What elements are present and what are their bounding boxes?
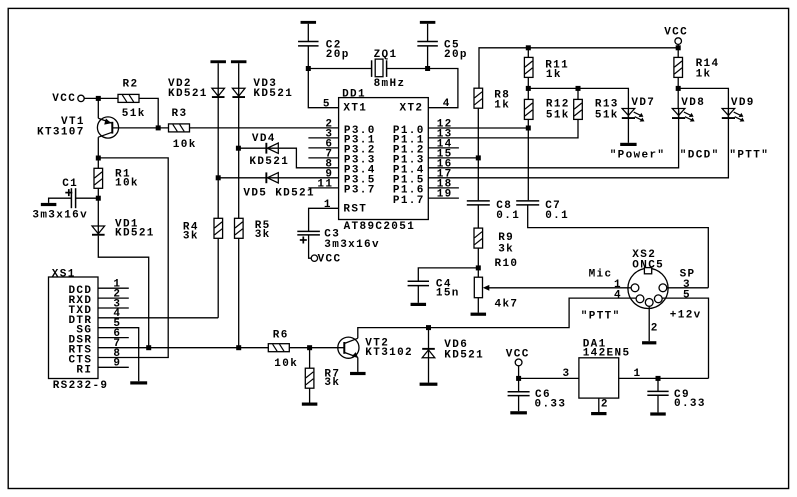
svg-text:10k: 10k [274,358,298,370]
capacitor C8 [467,200,490,202]
wire node to VD1 [97,198,99,236]
wire VD4 to DD1 pin8 [278,148,338,168]
svg-text:AT89C2051: AT89C2051 [344,221,416,233]
wire VCC terminal to R2 [84,97,118,99]
diode VD4 KD521 [265,143,267,154]
wire VD8 to DD1 pin16 [428,111,678,168]
wire R4 to DTR line [217,238,219,317]
pin 1 circle (XS2) [631,284,639,292]
wire DD1 pin stub (right row 2) [428,147,459,149]
svg-text:VD7: VD7 [631,97,655,109]
wire VCC rail [479,48,678,88]
wire XS2 pin2 to ground [648,306,650,341]
node junction PTT/VD6 [426,325,431,330]
LED VD9 [727,109,729,118]
wire R8 bottom to C8 [477,108,479,200]
svg-text:142EN5: 142EN5 [583,348,631,360]
svg-text:RST: RST [343,204,367,216]
voltage regulator DA1 142EN5 [579,358,619,398]
wire node to XT2 pin4 [428,69,458,108]
resistor R1 [94,168,103,188]
wire VT2 collector PTT line [358,298,636,338]
LED VD7 [627,109,629,118]
wire DA1 pin1 to +12v line [619,377,709,379]
svg-text:P1.7: P1.7 [393,195,425,207]
wire node to C9 [657,378,659,391]
wire C2 to XT1 node [307,46,309,68]
capacitor C4 [408,280,429,282]
node junction C2/ZQ1/XT1 [306,66,311,71]
IC DD1 AT89C2051 [339,98,429,220]
wire C3 to VCC terminal [309,235,312,258]
wire XS1 pin 3 stub [98,307,129,309]
svg-text:3m3x16v: 3m3x16v [324,239,380,251]
svg-text:+12v: +12v [670,309,702,321]
wire XS1 pin 1 stub [98,287,129,289]
wire VCC to DA1 pin3 [518,366,520,392]
wire R11 bottom [527,77,529,99]
wire VD2 to R4 [217,98,219,218]
wire node to R1 [97,158,99,168]
wire node to ZQ1 [308,68,371,70]
svg-text:"PTT": "PTT" [581,311,621,323]
wire node to R13 [577,88,579,99]
wire DD1 pin stub (left row 3) [308,157,338,159]
wire DD1 pin12 line [428,127,528,129]
wire DD1 pin15 to R8 node [428,157,478,159]
wire DD1 pin stub (right row 7) [428,197,459,199]
connector XS1 RS232-9 [49,277,99,379]
svg-text:3k: 3k [255,229,271,241]
svg-text:4: 4 [443,98,451,110]
node junction R2/R3/VT1 base [156,125,161,130]
wire R10 bottom to ground [477,298,479,313]
potentiometer R10 [474,277,482,298]
wire VD9 to DD1 pin17 [428,111,728,178]
wire node to C4 [418,268,478,281]
power terminal VCC (C3) [311,255,317,261]
wire VT1 base to R3 [112,127,168,129]
wire VD3 to R5 [238,98,240,218]
svg-text:1k: 1k [494,99,510,111]
node junction RTS/VD1 [146,345,151,350]
wire DD1 pin stub (right row 6) [428,187,459,189]
wire rail to VD3 [238,63,240,98]
wire VT1 emitter up [97,98,99,118]
ground DA1 [591,412,606,415]
wire bar to C2 [307,24,309,42]
wire R5 to RTS line [238,238,240,347]
wire VD6 to ground [428,358,430,383]
svg-text:15n: 15n [436,288,460,300]
wire RST pin1 to C3 [309,208,339,231]
node junction VD2 column/VD5 [216,175,221,180]
wire node to VD6 [428,328,430,358]
pin 5 circle (XS2) [654,295,662,303]
resistor R8 [474,88,483,108]
wire rail to VD9 [678,88,728,108]
diode VD5 KD521 [265,172,267,183]
svg-text:0.33: 0.33 [674,398,706,410]
svg-text:3k: 3k [183,230,199,242]
svg-text:4k7: 4k7 [495,298,519,310]
ground VD7 [620,143,636,146]
wire node to VD4 [238,147,278,149]
svg-text:1k: 1k [696,68,712,80]
svg-text:10k: 10k [115,178,139,190]
resistor R7 [305,368,314,388]
power rail bar (C5) [420,21,436,24]
pin 2 circle (XS2) [645,299,653,307]
power rail bar (VD3) [231,60,247,63]
resistor R11 [524,57,533,77]
wire C1 right plate to node [76,197,99,199]
wire VCC circle to rail [677,44,679,57]
resistor R14 [674,57,683,77]
wire VT1 collector down [97,137,99,158]
svg-text:KD521: KD521 [444,349,484,361]
node junction DA1 pin1/C9 [656,376,661,381]
svg-text:XS1: XS1 [52,268,76,280]
svg-text:P3.7: P3.7 [344,185,376,197]
resistor R4 [214,218,223,238]
svg-text:VD8: VD8 [681,97,705,109]
node junction VCC/VT1 emitter [96,96,101,101]
wire node to VD5 [218,177,278,179]
node junction R12/pin12/C7 [526,126,531,131]
pin 4 circle (XS2) [636,295,644,303]
wire LED rail to VD7 [528,88,628,108]
svg-text:VD9: VD9 [731,97,755,109]
svg-text:"DCD": "DCD" [680,149,720,161]
svg-text:1k: 1k [546,69,562,81]
node junction VD3/VD4 [236,146,241,151]
svg-text:VD5 KD521: VD5 KD521 [243,187,315,199]
svg-text:XT1: XT1 [343,102,367,114]
node junction VT1 collector/R1 [96,156,101,161]
wire R1 bottom to C1 node [97,188,99,198]
wire XS1 pin 9 stub [98,366,129,368]
wire XS1 SG pin5 to ground [98,328,139,382]
svg-text:0.1: 0.1 [496,210,520,222]
svg-text:R2: R2 [123,79,139,91]
svg-text:VD4: VD4 [252,133,276,145]
wire DD1 pin stub (left row 1) [308,137,338,139]
node junction rail/R13 [576,86,581,91]
resistor R6 [268,344,289,352]
svg-text:19: 19 [437,189,453,201]
wire R7 to ground [309,388,311,402]
svg-text:11: 11 [317,179,333,191]
node junction R1/C1/VD1 [96,196,101,201]
svg-text:RI: RI [76,364,92,376]
svg-text:3m3x16v: 3m3x16v [32,209,88,221]
wire C4 to ground [417,286,419,303]
wire VD7 to ground [627,111,629,143]
wire R6 to VT2 base [289,347,344,349]
wire R14 bottom to VD8 [677,77,679,108]
svg-text:51k: 51k [595,109,619,121]
wire C5 to node [427,46,429,68]
svg-text:DD1: DD1 [342,88,366,100]
svg-text:"Power": "Power" [610,149,666,161]
ground VD6 [420,383,438,386]
node junction R8/pin15 [476,155,481,160]
node junction R6/R7/VT2 base [307,345,312,350]
wire R2 right to VT1 base node [139,98,158,128]
node junction RTS/R5 [236,345,241,350]
svg-text:R6: R6 [273,329,289,341]
wire XS1 pin 6 stub [98,337,129,339]
wire ZQ1 to C5 node [387,68,428,70]
svg-text:R3: R3 [172,108,188,120]
resistor R2 [118,94,139,102]
svg-text:KD521: KD521 [115,228,155,240]
wire bar to C5 [427,24,429,42]
svg-text:20p: 20p [326,49,350,61]
node junction R14/VD8/VD9 rail [676,86,681,91]
capacitor C7 [516,200,539,202]
wire XS1 DTR pin4 to R4 [98,317,218,319]
power rail bar (C2) [301,21,317,24]
svg-text:3k: 3k [498,244,514,256]
capacitor C3 [297,230,320,232]
svg-text:3k: 3k [324,377,340,389]
node junction R9/C4/R10 [476,265,481,270]
node junction rail/R11 [526,45,531,50]
resistor R9 [474,228,483,248]
resistor R3 [169,124,190,132]
svg-text:51k: 51k [122,108,146,120]
wire C1 left plate to ground [49,198,72,203]
wire R3 to DD1 pin2 [190,127,339,129]
svg-text:8mHz: 8mHz [374,78,406,90]
svg-text:ZQ1: ZQ1 [374,49,398,61]
wire R10 wiper to XS2 Mic pin1 [488,287,632,289]
wire rail to R11 [527,48,529,58]
svg-text:10k: 10k [173,139,197,151]
wire DD1 pin stub (left row 6) [308,187,338,189]
wire C7 bottom to XS2 SP pin3 [528,205,709,288]
svg-text:KT3107: KT3107 [37,127,85,139]
transistor VT2 KT3102 (NPN) [338,337,359,358]
wire XS1 RTS pin7 to R6 [98,347,268,349]
wire XS1 pin 2 stub [98,297,129,299]
label + (C3 polarity) [300,239,307,241]
node junction R11/R12 [526,86,531,91]
svg-text:Mic: Mic [589,269,613,281]
ground VT2 [350,372,366,375]
wire node to R10 [477,268,479,277]
svg-text:1: 1 [324,199,332,211]
capacitor C1 [70,188,72,208]
svg-text:VCC: VCC [664,27,688,39]
wire VT2 emitter to ground [357,357,359,372]
svg-text:5: 5 [323,99,331,111]
diode VD2 KD521 [212,88,225,96]
crystal ZQ1 8mHz [371,60,373,77]
svg-text:C1: C1 [62,178,78,190]
wire DD1 pin stub (left row 2) [308,147,338,149]
wire R12 bottom to pin12 line [527,119,529,200]
svg-text:R9: R9 [498,232,514,244]
connector XS2 ONC5 (DIN-5) [628,268,668,308]
svg-text:KD521: KD521 [168,88,208,100]
ground XS2 [642,341,656,344]
ground R10 [471,313,487,316]
svg-text:VCC: VCC [318,254,342,266]
ground C9 [650,412,666,415]
wire node to R7 [309,348,311,369]
svg-text:4: 4 [614,289,622,301]
wire C8 to R9 [477,205,479,228]
wire C6 to ground [518,396,520,412]
svg-text:KD521: KD521 [253,88,293,100]
ground C6 [510,411,527,414]
label + (C1 polarity) [65,192,72,194]
svg-text:51k: 51k [546,109,570,121]
wire R13 bottom to DD1 pin13 [428,119,578,137]
svg-text:2: 2 [601,398,609,410]
svg-text:XT2: XT2 [400,102,424,114]
ground C1 [41,203,57,206]
wire DA1 pin2 to ground [598,398,600,412]
svg-text:KD521: KD521 [249,156,289,168]
svg-text:KT3102: KT3102 [365,347,413,359]
resistor R13 [574,99,583,119]
power rail bar (VD2) [210,60,226,63]
svg-text:3: 3 [563,368,571,380]
svg-text:VCC: VCC [52,93,76,105]
diode VD1 KD521 [92,226,105,234]
svg-text:ONC5: ONC5 [632,259,664,271]
resistor R12 [524,99,533,119]
wire R9 bottom [477,248,479,268]
resistor R5 [235,218,244,238]
wire node to XT1 pin5 [308,69,338,108]
svg-text:R10: R10 [495,258,519,270]
capacitor C9 [647,390,668,392]
diode VD3 KD521 [232,88,245,96]
svg-text:"PTT": "PTT" [729,149,769,161]
wire rail to VD2 [217,63,219,98]
capacitor C2 [298,41,319,43]
svg-text:2: 2 [651,323,659,335]
ground C4 [411,303,427,306]
wire VD1 to RTS line [98,236,148,348]
node junction rail/R14 [676,45,681,50]
wire XS2 pin5 to DA1 input [662,298,708,378]
svg-text:0.1: 0.1 [545,210,569,222]
svg-text:0.33: 0.33 [535,399,567,411]
capacitor C5 [417,41,438,43]
svg-text:20p: 20p [444,49,468,61]
diode VD6 KD521 (cathode up) [422,348,435,350]
ground SG [130,381,147,384]
capacitor C6 [508,391,530,393]
LED VD8 [678,109,680,118]
transistor VT1 KT3107 (PNP) [97,117,118,138]
wire node to DA1 pin3 [519,377,579,379]
wire C9 to ground [657,395,659,412]
svg-text:RS232-9: RS232-9 [53,380,109,392]
wire XS1 CTS pin8 to VT1 collector node [98,158,168,358]
node junction C5/ZQ1/XT2 [425,66,430,71]
pin 3 circle (XS2) [659,284,667,292]
wire VD5 to DD1 pin9 [278,177,338,179]
svg-text:5: 5 [683,289,691,301]
wire XS2 pin3 to SP line [667,287,709,289]
ground R7 [302,403,318,406]
